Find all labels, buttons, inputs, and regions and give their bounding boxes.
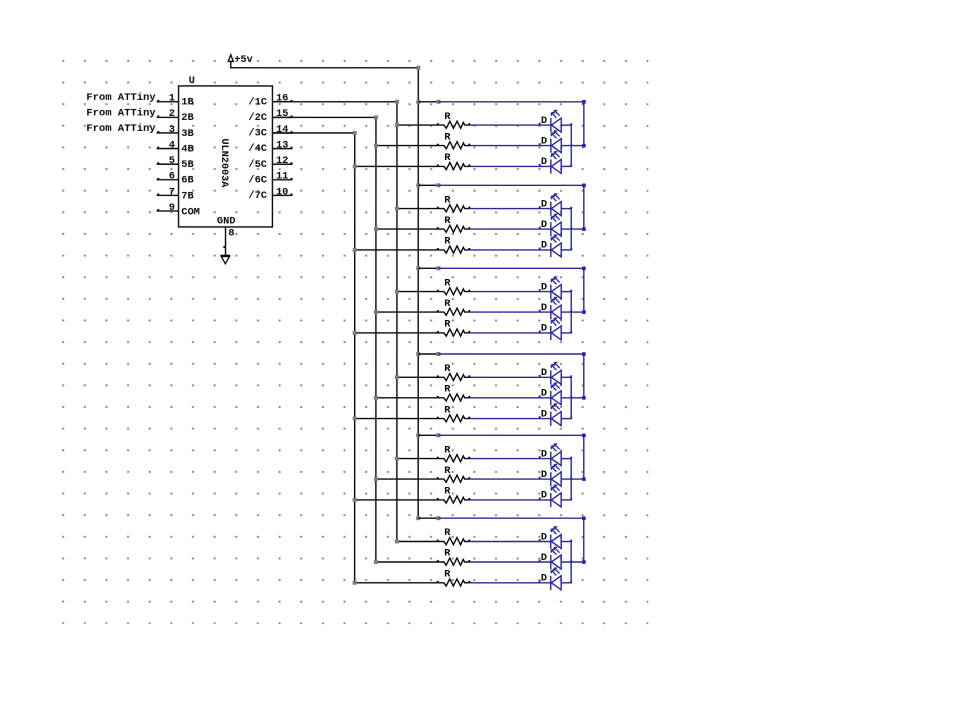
wire anode D4 stub: [561, 208, 572, 210]
junction bus row R9: [353, 331, 357, 335]
svg-text:16: 16: [276, 93, 288, 105]
junction bus row R7: [395, 290, 399, 294]
junction bus row R11: [374, 396, 378, 400]
node +5v rail junction group 1: [416, 100, 420, 104]
LED D6: [539, 235, 562, 257]
svg-text:/1C: /1C: [248, 96, 267, 108]
pin dot anode D6: [570, 248, 572, 250]
wire anode bus vertical group 1: [570, 125, 572, 166]
resistor R11: [437, 394, 471, 401]
junction +5v corner: [416, 66, 420, 70]
LED D11: [539, 383, 562, 405]
svg-text:D: D: [541, 240, 547, 252]
pin 8 stub (GND): [223, 227, 234, 255]
node +5v rail junction group 4: [416, 352, 420, 356]
node rail corner group 1: [582, 100, 586, 104]
svg-text:D: D: [541, 388, 547, 400]
pin dot anode D8: [570, 310, 572, 312]
wire anode rail group 2: [438, 184, 583, 186]
pin dot anode D1: [570, 123, 572, 125]
wire bus to resistor R15: [355, 499, 438, 501]
pin dot anode D15: [570, 498, 572, 500]
junction bus row R18: [353, 581, 357, 585]
LED D4: [539, 194, 562, 216]
junction corner: [374, 115, 378, 119]
wire anode rail group 4: [438, 353, 583, 355]
resistor R18: [437, 579, 471, 586]
svg-text:3: 3: [169, 124, 175, 136]
svg-text:5B: 5B: [181, 159, 193, 171]
wire R12 to LED D12: [469, 418, 550, 420]
svg-text:R: R: [444, 527, 451, 539]
LED D18: [539, 568, 562, 590]
wire rail stub group 4: [418, 353, 438, 355]
wire vertical bus from pin 14: [354, 133, 356, 583]
pin 2 stub (left, 2B): [157, 108, 179, 120]
wire R5 to LED D5: [469, 228, 550, 230]
junction rail blue start group 6: [436, 516, 440, 520]
svg-text:1: 1: [169, 93, 175, 105]
pin 1 stub (left, 1B): [157, 93, 179, 105]
resistor R9: [437, 329, 471, 336]
LED D2: [539, 131, 562, 153]
wire anode bus vertical group 4: [570, 377, 572, 418]
svg-text:D: D: [541, 219, 547, 231]
svg-text:R: R: [444, 298, 451, 310]
pin dot anode D11: [570, 396, 572, 398]
node rail corner group 3: [582, 267, 586, 271]
wire R13 to LED D13: [469, 458, 550, 460]
pin 13 stub (right, 4C): [272, 139, 292, 151]
junction rail blue start group 2: [436, 183, 440, 187]
resistor R12: [437, 415, 471, 422]
svg-text:8: 8: [228, 227, 234, 239]
resistor R7: [437, 288, 471, 295]
junction rail blue start group 1: [436, 100, 440, 104]
wire bus to resistor R6: [355, 249, 438, 251]
wire anode D12 stub: [561, 418, 572, 420]
wire R16 to LED D16: [469, 540, 550, 542]
svg-text:D: D: [541, 135, 547, 147]
resistor R3: [437, 162, 471, 169]
wire anode D15 stub: [561, 499, 572, 501]
wire anode D2 to rail drop: [561, 145, 584, 147]
junction rail blue start group 4: [436, 352, 440, 356]
node +5v rail junction group 3: [416, 266, 420, 270]
svg-text:R: R: [444, 363, 451, 375]
junction bus row R14: [374, 477, 378, 481]
svg-text:D: D: [541, 490, 547, 502]
svg-text:U: U: [189, 75, 195, 87]
node anode mid group 5: [582, 477, 586, 481]
node +5v rail junction group 5: [416, 433, 420, 437]
wire anode D8 to rail drop: [561, 311, 584, 313]
resistor R1: [437, 121, 471, 128]
svg-text:/6C: /6C: [248, 174, 267, 186]
svg-text:R: R: [444, 236, 451, 248]
svg-text:2B: 2B: [181, 112, 193, 124]
svg-text:R: R: [444, 486, 451, 498]
wire R10 to LED D10: [469, 376, 550, 378]
svg-text:2: 2: [169, 108, 175, 120]
op-amp U1 ULN2003A IC body: [179, 75, 273, 227]
wire +5v rail horizontal: [230, 67, 418, 69]
resistor R10: [437, 373, 471, 380]
junction rail blue start group 3: [436, 266, 440, 270]
svg-text:R: R: [444, 277, 451, 289]
node anode mid group 4: [582, 396, 586, 400]
svg-text:4: 4: [169, 139, 175, 151]
wire anode rail group 5: [438, 434, 583, 436]
pin 15 stub (right, 2C): [272, 108, 292, 120]
svg-text:From ATTiny: From ATTiny: [86, 123, 156, 135]
LED D13: [539, 444, 562, 466]
wire bus to resistor R16: [397, 540, 438, 542]
wire bus to resistor R13: [397, 458, 438, 460]
svg-text:11: 11: [276, 171, 288, 183]
svg-text:/4C: /4C: [248, 143, 267, 155]
LED D5: [539, 214, 562, 236]
wire bus to resistor R18: [355, 582, 438, 584]
wire R17 to LED D17: [469, 561, 550, 563]
wire anode D6 stub: [561, 249, 572, 251]
wire anode D16 stub: [561, 541, 572, 543]
wire R8 to LED D8: [469, 311, 550, 313]
svg-text:12: 12: [276, 155, 288, 167]
wire anode drop group 1: [583, 102, 585, 146]
junction bus row R4: [395, 207, 399, 211]
pin dot anode D17: [570, 560, 572, 562]
wire rail stub group 5: [418, 434, 438, 436]
node rail corner group 4: [582, 352, 586, 356]
LED D9: [539, 318, 562, 340]
wire bus to resistor R7: [397, 291, 438, 293]
wire anode drop group 2: [583, 185, 585, 229]
pin dot anode D18: [570, 581, 572, 583]
svg-text:R: R: [444, 548, 451, 560]
wire bus to resistor R9: [355, 332, 438, 334]
svg-text:D: D: [541, 115, 547, 127]
svg-text:R: R: [444, 383, 451, 395]
svg-text:R: R: [444, 152, 451, 164]
wire anode D9 stub: [561, 332, 572, 334]
wire vertical bus from pin 16: [396, 102, 398, 542]
svg-text:D: D: [541, 552, 547, 564]
pin 3 stub (left, 3B): [157, 124, 179, 136]
node anode mid group 1: [582, 144, 586, 148]
svg-text:13: 13: [276, 139, 288, 151]
svg-text:D: D: [541, 531, 547, 543]
ground symbol: [220, 255, 230, 263]
pin dot anode D14: [570, 477, 572, 479]
svg-text:15: 15: [276, 108, 288, 120]
svg-text:D: D: [541, 302, 547, 314]
node rail corner group 5: [582, 434, 586, 438]
svg-text:D: D: [541, 156, 547, 168]
wire R2 to LED D2: [469, 145, 550, 147]
svg-text:R: R: [444, 465, 451, 477]
pin dot anode D12: [570, 417, 572, 419]
junction bus row R17: [374, 560, 378, 564]
pin dot anode D9: [570, 331, 572, 333]
wire anode drop group 5: [583, 435, 585, 479]
wire anode D14 to rail drop: [561, 478, 584, 480]
junction corner: [353, 131, 357, 135]
LED D3: [539, 152, 562, 174]
resistor R14: [437, 475, 471, 482]
wire R6 to LED D6: [469, 249, 550, 251]
node +5v rail junction group 6: [416, 516, 420, 520]
wire anode D13 stub: [561, 458, 572, 460]
pin dot anode D7: [570, 290, 572, 292]
pin dot anode D4: [570, 207, 572, 209]
wire anode bus vertical group 2: [570, 209, 572, 250]
svg-text:ULN2003A: ULN2003A: [218, 138, 229, 188]
wire R9 to LED D9: [469, 332, 550, 334]
node +5v rail junction group 2: [416, 183, 420, 187]
pin dot anode D2: [570, 144, 572, 146]
junction bus row R3: [353, 164, 357, 168]
svg-text:D: D: [541, 323, 547, 335]
pin 7 stub (left, 7B): [157, 186, 179, 198]
svg-text:6: 6: [169, 171, 175, 183]
pin 4 stub (left, 4B): [157, 139, 179, 151]
svg-text:R: R: [444, 215, 451, 227]
junction bus row R6: [353, 248, 357, 252]
wire bus to resistor R3: [355, 165, 438, 167]
junction bus row R8: [374, 310, 378, 314]
wire vertical bus from pin 15: [375, 117, 377, 562]
wire pin 16 to LED rows 1 horizontal: [272, 101, 397, 103]
svg-text:D: D: [541, 281, 547, 293]
svg-text:R: R: [444, 444, 451, 456]
svg-text:R: R: [444, 319, 451, 331]
junction bus row R13: [395, 457, 399, 461]
junction bus row R5: [374, 227, 378, 231]
wire anode drop group 6: [583, 518, 585, 562]
pin dot anode D3: [570, 165, 572, 167]
resistor R2: [437, 142, 471, 149]
svg-text:7: 7: [169, 186, 175, 198]
wire bus to resistor R10: [397, 376, 438, 378]
wire anode rail group 6: [438, 517, 583, 519]
svg-text:COM: COM: [181, 206, 200, 218]
wire anode bus vertical group 6: [570, 542, 572, 583]
svg-text:D: D: [541, 367, 547, 379]
LED D10: [539, 363, 562, 385]
wire anode rail group 3: [438, 267, 583, 269]
LED D16: [539, 527, 562, 549]
svg-text:D: D: [541, 469, 547, 481]
svg-text:From ATTiny: From ATTiny: [86, 107, 156, 119]
pin dot anode D10: [570, 375, 572, 377]
pin 5 stub (left, 5B): [157, 155, 179, 167]
svg-text:7B: 7B: [181, 190, 193, 202]
resistor R17: [437, 558, 471, 565]
junction bus row R1: [395, 123, 399, 127]
wire bus to resistor R12: [355, 418, 438, 420]
wire R7 to LED D7: [469, 291, 550, 293]
wire pin 14 to LED rows 3 horizontal: [272, 132, 354, 134]
junction bus row R10: [395, 375, 399, 379]
junction bus row R12: [353, 417, 357, 421]
LED D1: [539, 110, 562, 132]
pin dot anode D13: [570, 457, 572, 459]
wire bus to resistor R17: [376, 561, 438, 563]
svg-text:6B: 6B: [181, 175, 193, 187]
svg-text:+5v: +5v: [234, 54, 253, 66]
svg-text:R: R: [444, 194, 451, 206]
LED D7: [539, 277, 562, 299]
node rail corner group 2: [582, 184, 586, 188]
junction rail blue start group 5: [436, 433, 440, 437]
wire +5v vertical bus: [417, 68, 419, 518]
wire anode rail group 1: [438, 101, 583, 103]
wire R14 to LED D14: [469, 478, 550, 480]
svg-text:/5C: /5C: [248, 159, 267, 171]
wire anode D10 stub: [561, 376, 572, 378]
wire bus to resistor R2: [376, 145, 438, 147]
wire rail stub group 6: [418, 517, 438, 519]
wire anode D5 to rail drop: [561, 228, 584, 230]
svg-text:D: D: [541, 408, 547, 420]
pin 14 stub (right, 3C): [272, 124, 292, 136]
resistor R16: [437, 538, 471, 545]
wire R18 to LED D18: [469, 582, 550, 584]
svg-text:D: D: [541, 573, 547, 585]
wire anode D18 stub: [561, 582, 572, 584]
wire anode bus vertical group 5: [570, 459, 572, 500]
svg-text:GND: GND: [217, 215, 236, 227]
pin 9 stub (left, COM): [157, 202, 179, 214]
wire R4 to LED D4: [469, 208, 550, 210]
svg-text:14: 14: [276, 124, 288, 136]
LED D14: [539, 464, 562, 486]
junction bus row R2: [374, 144, 378, 148]
pin dot anode D5: [570, 227, 572, 229]
+5v power symbol: [228, 54, 253, 68]
wire bus to resistor R5: [376, 228, 438, 230]
LED D17: [539, 547, 562, 569]
wire rail stub group 1: [418, 101, 438, 103]
pin dot anode D16: [570, 540, 572, 542]
LED D12: [539, 404, 562, 426]
node anode mid group 3: [582, 310, 586, 314]
junction bus row R15: [353, 498, 357, 502]
LED D15: [539, 485, 562, 507]
LED D8: [539, 297, 562, 319]
wire anode D3 stub: [561, 165, 572, 167]
wire R15 to LED D15: [469, 499, 550, 501]
resistor R6: [437, 246, 471, 253]
svg-text:R: R: [444, 568, 451, 580]
pin 16 stub (right, 1C): [272, 93, 292, 105]
svg-text:4B: 4B: [181, 143, 193, 155]
wire anode D11 to rail drop: [561, 397, 584, 399]
resistor R15: [437, 496, 471, 503]
pin 12 stub (right, 5C): [272, 155, 292, 167]
svg-text:R: R: [444, 131, 451, 143]
svg-text:3B: 3B: [181, 128, 193, 140]
svg-text:10: 10: [276, 186, 288, 198]
wire rail stub group 2: [418, 184, 438, 186]
wire anode D17 to rail drop: [561, 561, 584, 563]
wire bus to resistor R14: [376, 478, 438, 480]
pin 10 stub (right, 7C): [272, 186, 292, 198]
wire anode bus vertical group 3: [570, 292, 572, 333]
svg-text:5: 5: [169, 155, 175, 167]
wire R11 to LED D11: [469, 397, 550, 399]
wire bus to resistor R4: [397, 208, 438, 210]
svg-text:R: R: [444, 404, 451, 416]
wire R1 to LED D1: [469, 124, 550, 126]
pin 11 stub (right, 6C): [272, 171, 292, 183]
svg-text:D: D: [541, 448, 547, 460]
wire anode drop group 4: [583, 354, 585, 398]
pin 6 stub (left, 6B): [157, 171, 179, 183]
node anode mid group 2: [582, 227, 586, 231]
wire anode D7 stub: [561, 291, 572, 293]
svg-text:R: R: [444, 111, 451, 123]
resistor R5: [437, 225, 471, 232]
wire bus to resistor R8: [376, 311, 438, 313]
junction bus row R16: [395, 539, 399, 543]
svg-text:From ATTiny: From ATTiny: [86, 92, 156, 104]
svg-text:1B: 1B: [181, 97, 193, 109]
resistor R4: [437, 205, 471, 212]
node rail corner group 6: [582, 516, 586, 520]
resistor R13: [437, 455, 471, 462]
svg-text:/2C: /2C: [248, 112, 267, 124]
resistor R8: [437, 308, 471, 315]
svg-text:9: 9: [169, 202, 175, 214]
svg-text:/3C: /3C: [248, 128, 267, 140]
wire bus to resistor R1: [397, 124, 438, 126]
svg-text:D: D: [541, 198, 547, 210]
wire anode drop group 3: [583, 268, 585, 312]
wire rail stub group 3: [418, 267, 438, 269]
wire anode D1 stub: [561, 124, 572, 126]
wire bus to resistor R11: [376, 397, 438, 399]
wire R3 to LED D3: [469, 165, 550, 167]
node anode mid group 6: [582, 560, 586, 564]
svg-text:/7C: /7C: [248, 190, 267, 202]
wire pin 15 to LED rows 2 horizontal: [272, 116, 376, 118]
dot grid background: [61, 59, 648, 624]
junction corner: [395, 100, 399, 104]
